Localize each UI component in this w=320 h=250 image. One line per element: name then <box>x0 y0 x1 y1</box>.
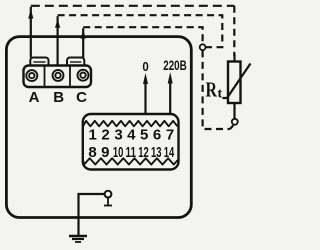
svg-text:0: 0 <box>142 59 148 74</box>
svg-text:B: B <box>53 89 64 106</box>
svg-text:5: 5 <box>140 127 148 144</box>
svg-text:10: 10 <box>113 144 124 161</box>
svg-text:1: 1 <box>89 127 97 144</box>
svg-text:4: 4 <box>127 127 136 144</box>
svg-text:7: 7 <box>166 127 174 144</box>
svg-text:R: R <box>206 78 218 102</box>
svg-text:11: 11 <box>126 144 137 161</box>
svg-text:3: 3 <box>114 127 122 144</box>
svg-text:13: 13 <box>151 144 162 161</box>
svg-text:8: 8 <box>88 144 96 161</box>
svg-text:A: A <box>29 89 40 106</box>
svg-text:t: t <box>218 87 223 102</box>
svg-text:14: 14 <box>164 144 175 161</box>
svg-text:9: 9 <box>101 144 109 161</box>
svg-text:220В: 220В <box>163 57 187 73</box>
svg-text:12: 12 <box>138 144 149 161</box>
svg-text:2: 2 <box>101 127 109 144</box>
svg-text:6: 6 <box>153 127 161 144</box>
svg-text:C: C <box>76 89 87 106</box>
